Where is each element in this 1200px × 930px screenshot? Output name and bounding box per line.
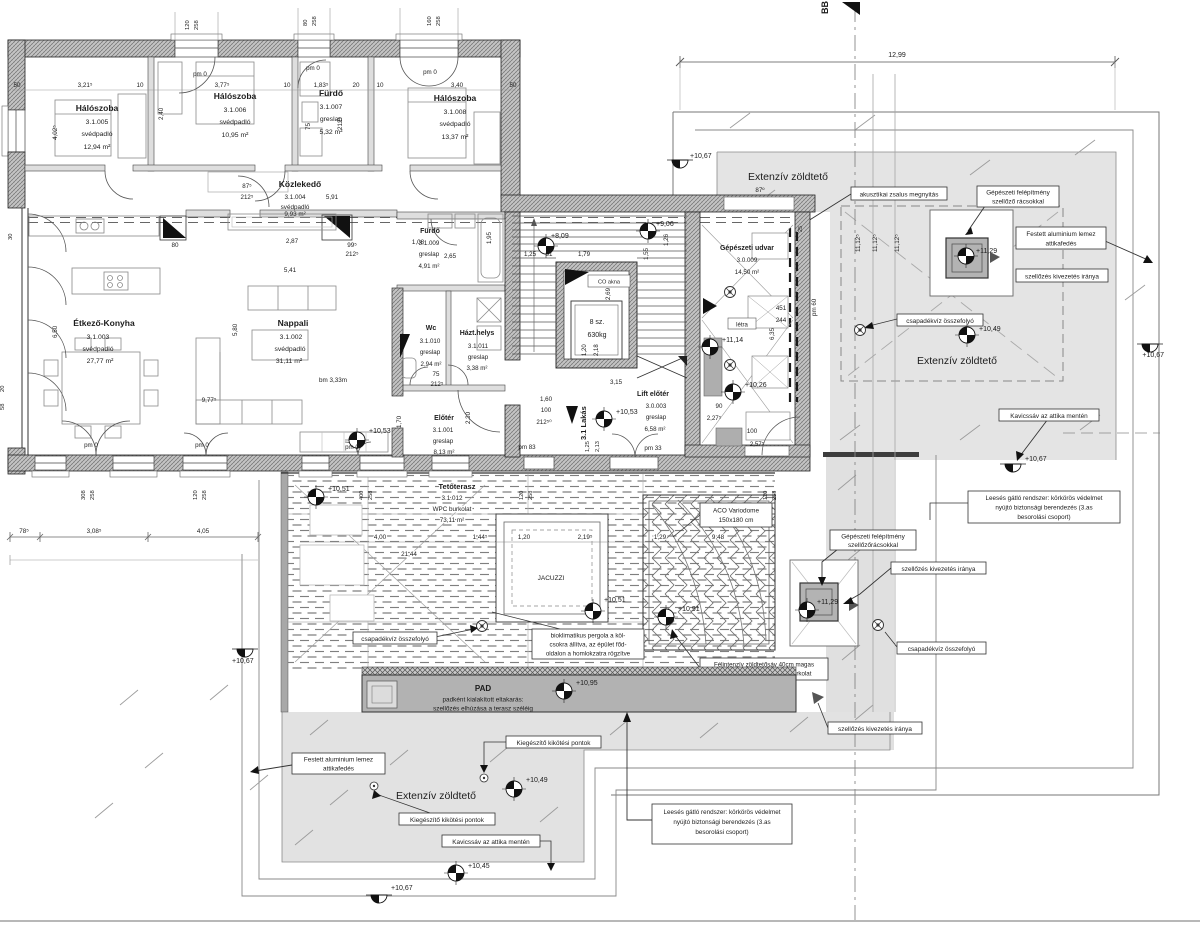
- svg-text:+9,06: +9,06: [656, 221, 674, 228]
- svg-text:27,77 m²: 27,77 m²: [87, 358, 115, 365]
- marker +10,51 terrace left: [304, 485, 328, 509]
- svg-text:258: 258: [528, 491, 534, 500]
- svg-text:258: 258: [90, 490, 96, 500]
- vent enclosure white box right roof: [930, 210, 1013, 296]
- svg-text:CO akna: CO akna: [598, 280, 621, 286]
- svg-text:90: 90: [716, 403, 723, 410]
- svg-text:Fürdő: Fürdő: [319, 88, 343, 98]
- svg-text:szellőzés kivezetés iránya: szellőzés kivezetés iránya: [1025, 274, 1099, 281]
- svg-text:svédpadló: svédpadló: [275, 346, 306, 353]
- svg-text:+10,91: +10,91: [678, 606, 700, 613]
- svg-text:400: 400: [359, 491, 365, 500]
- marker +10,95 PAD: [552, 679, 576, 703]
- wc toilet: [402, 358, 416, 378]
- udvar equipment boxes: [746, 233, 790, 440]
- letra label: [728, 318, 756, 329]
- marker +10,67 terrace left: [232, 649, 258, 657]
- callout kavicssav bottom: [442, 835, 555, 871]
- svg-text:25: 25: [798, 226, 804, 232]
- green roof band bottom upper: [282, 712, 890, 750]
- section grid line 3: [894, 74, 896, 712]
- svg-text:Extenzív zöldtető: Extenzív zöldtető: [748, 171, 828, 183]
- terrace ghost furniture: [300, 505, 374, 621]
- udvar top opening: [724, 197, 794, 210]
- bottom window 2: [110, 456, 157, 477]
- corridor top wall segments: [25, 165, 501, 171]
- marker +10,51 jacuzzi: [581, 599, 605, 623]
- svg-text:3.1.008: 3.1.008: [444, 109, 467, 116]
- CO akna label: [588, 275, 630, 287]
- svg-text:212⁵: 212⁵: [431, 381, 444, 388]
- svg-text:+10,51: +10,51: [604, 597, 626, 604]
- terrace drain: [477, 621, 488, 632]
- svg-text:258: 258: [772, 491, 778, 500]
- svg-text:20: 20: [0, 386, 6, 392]
- dashed attic line right bottom: [1063, 432, 1160, 434]
- udvar bottom opening: [745, 446, 789, 456]
- elevator shaft walls: [556, 262, 637, 368]
- svg-text:5,80: 5,80: [232, 323, 239, 336]
- svg-text:Extenzív zöldtető: Extenzív zöldtető: [396, 790, 476, 802]
- pm labels doors: [84, 65, 437, 451]
- dashed maintenance rect right roof: [841, 206, 1063, 381]
- bottom double door arcs 2: [184, 433, 228, 455]
- svg-text:Hálószoba: Hálószoba: [434, 93, 477, 103]
- svg-text:svédpadló: svédpadló: [281, 204, 310, 211]
- marker +11,29 bottom: [795, 598, 819, 622]
- svg-text:3.1.004: 3.1.004: [284, 194, 306, 201]
- door arcs top rooms: [179, 57, 458, 93]
- vent square bottom: [800, 583, 838, 621]
- window witness lines top: [175, 8, 458, 40]
- glass wall door arcs left: [28, 214, 66, 411]
- svg-text:2,18: 2,18: [594, 344, 600, 356]
- svg-text:10: 10: [376, 82, 384, 89]
- svg-text:212⁵: 212⁵: [345, 251, 359, 258]
- svg-text:pm 0: pm 0: [195, 442, 209, 449]
- outer wall bottom main: [8, 455, 810, 471]
- door arc wc: [410, 367, 428, 385]
- stair treads top flight: [512, 216, 687, 258]
- svg-text:212⁵⁰: 212⁵⁰: [536, 419, 552, 426]
- outer wall top segment 1: [8, 40, 175, 57]
- callout kavicssav right: [999, 409, 1099, 461]
- eloter closet: [300, 432, 388, 452]
- svg-text:3,15: 3,15: [610, 379, 623, 386]
- green roof fill right main: [830, 212, 1116, 460]
- svg-text:630kg: 630kg: [587, 332, 606, 339]
- svg-text:+10,67: +10,67: [391, 885, 413, 892]
- svg-text:1,20: 1,20: [582, 344, 588, 356]
- bottom opening entry: [524, 457, 554, 469]
- svg-text:12,94 m²: 12,94 m²: [84, 144, 112, 151]
- svg-text:svédpadló: svédpadló: [83, 346, 114, 353]
- terrace diagonal cross 2: [515, 525, 595, 610]
- dim row 78 308 405: [10, 536, 258, 538]
- nappali east wall upper: [392, 288, 403, 396]
- svg-text:Leesés gátló rendszer: körkörö: Leesés gátló rendszer: körkörös védelmet: [664, 809, 781, 816]
- svg-text:+11,29: +11,29: [976, 248, 997, 255]
- bottom window 4: [299, 456, 332, 477]
- svg-text:csapadékvíz összefolyó: csapadékvíz összefolyó: [908, 646, 976, 653]
- PAD hatch strip: [362, 667, 796, 675]
- svg-text:2,27⁵: 2,27⁵: [707, 415, 722, 422]
- callout leesesgatlo bottom: [623, 712, 792, 844]
- svg-text:87⁵: 87⁵: [242, 183, 252, 190]
- outer wall top segment 2: [218, 40, 298, 57]
- svg-text:svédpadló: svédpadló: [220, 119, 251, 126]
- svg-text:+10,49: +10,49: [526, 777, 548, 784]
- svg-text:JACUZZI: JACUZZI: [538, 575, 565, 582]
- svg-text:21,44: 21,44: [401, 551, 417, 558]
- diagonal tick marks right roof: [730, 113, 1145, 720]
- svg-text:svédpadló: svédpadló: [82, 131, 113, 138]
- udvar louvre dashes: [790, 228, 797, 402]
- svg-text:+10,51: +10,51: [328, 486, 350, 493]
- door arcs corridor: [105, 171, 438, 207]
- svg-text:120: 120: [193, 490, 199, 500]
- svg-text:+10,45: +10,45: [468, 863, 490, 870]
- door arc living big: [458, 390, 500, 432]
- svg-text:11,12⁵: 11,12⁵: [872, 234, 879, 252]
- svg-text:Festett aluminium lemez: Festett aluminium lemez: [1026, 231, 1095, 238]
- svg-text:11,12⁵: 11,12⁵: [855, 234, 862, 252]
- bottom window 1: [32, 456, 69, 477]
- terrace grid lines: [288, 474, 643, 672]
- svg-text:attikafedés: attikafedés: [1046, 241, 1077, 248]
- svg-text:258: 258: [312, 16, 318, 26]
- stair treads left flight: [512, 266, 556, 354]
- kitchen counter: [29, 216, 159, 236]
- svg-text:Lift előtér: Lift előtér: [637, 391, 669, 398]
- terrace top edge: [281, 472, 775, 474]
- svg-text:pm 0: pm 0: [423, 69, 437, 76]
- svg-text:attikafedés: attikafedés: [323, 766, 354, 773]
- PAD planter box: [367, 681, 397, 708]
- svg-text:150x180 cm: 150x180 cm: [719, 517, 754, 524]
- elevator cab: [571, 301, 622, 359]
- marker +11,29 vent: [954, 244, 978, 268]
- furniture bath007: [300, 62, 330, 156]
- svg-text:+10,67: +10,67: [1025, 456, 1047, 463]
- svg-text:3.1.006: 3.1.006: [224, 107, 247, 114]
- svg-text:Gépészeti felépítmény: Gépészeti felépítmény: [841, 534, 905, 541]
- callout ACO Variodome: [673, 503, 772, 537]
- svg-text:1,25: 1,25: [585, 441, 591, 452]
- green roof edge lines right: [717, 152, 1116, 460]
- bottom window 5: [357, 456, 407, 477]
- svg-text:greslap: greslap: [646, 414, 667, 421]
- bottom double door arcs 1: [62, 421, 130, 455]
- svg-text:greslap: greslap: [419, 251, 440, 258]
- kitchen vent black wedge: [163, 218, 186, 238]
- marker +10,67 roof bottom: [1000, 464, 1026, 472]
- svg-text:50: 50: [509, 82, 517, 89]
- svg-text:szellőzés kivezetés iránya: szellőzés kivezetés iránya: [902, 566, 976, 573]
- svg-text:2,13: 2,13: [595, 441, 601, 452]
- svg-text:PAD: PAD: [475, 684, 492, 693]
- outer wall right upper: [501, 40, 520, 197]
- dashed diagonal right roof 2: [845, 212, 1058, 378]
- svg-text:1,79: 1,79: [578, 251, 591, 258]
- svg-text:oldalon a homlokzatra rögzítve: oldalon a homlokzatra rögzítve: [546, 651, 631, 658]
- outer wall top segment 4: [458, 40, 520, 57]
- callout csapadekviz mid: [864, 314, 983, 329]
- svg-text:11,12⁵: 11,12⁵: [894, 234, 901, 252]
- furdo009 bottom wall: [397, 285, 505, 291]
- svg-text:9,93 m²: 9,93 m²: [284, 211, 305, 218]
- svg-text:2,69: 2,69: [605, 287, 612, 300]
- marker +10,49 roof: [955, 323, 979, 347]
- outer wall left mid: [8, 152, 25, 208]
- callout gepeszeti felepitmeny bottom: [818, 530, 916, 586]
- vent white box bottom: [790, 560, 858, 646]
- svg-text:1,29: 1,29: [654, 534, 667, 541]
- marker +11,14: [698, 335, 722, 359]
- arrow triangle right of vent: [990, 252, 1000, 263]
- callout gepeszeti felepitmeny top: [977, 186, 1059, 207]
- svg-text:10: 10: [136, 82, 144, 89]
- section line BB vertical: [854, 6, 856, 920]
- svg-text:99⁵: 99⁵: [347, 242, 357, 249]
- svg-text:Kiegészítő kikötési pontok: Kiegészítő kikötési pontok: [517, 740, 592, 747]
- svg-text:20: 20: [352, 82, 360, 89]
- svg-text:78⁵: 78⁵: [19, 528, 29, 535]
- svg-text:2,65: 2,65: [444, 253, 457, 260]
- svg-text:létra: létra: [736, 323, 748, 329]
- callout leesesgatlo top: [930, 491, 1120, 523]
- svg-text:+10,53: +10,53: [369, 428, 391, 435]
- glass wall left lower: [22, 208, 28, 455]
- wc black wedge: [400, 334, 410, 358]
- callout festett aluminium: [1016, 227, 1106, 249]
- door arc furdo009: [431, 219, 457, 245]
- svg-text:pm 0: pm 0: [306, 65, 320, 72]
- svg-text:akusztikai zsalus megnyitás: akusztikai zsalus megnyitás: [860, 192, 939, 199]
- corridor dashed section lines: [28, 217, 812, 219]
- callout akusztikai zsalus: [797, 187, 947, 229]
- svg-text:+11,29: +11,29: [817, 599, 838, 606]
- callout felintenziv zoldtetosav: [670, 629, 828, 680]
- callout festett aluminium bottom: [250, 753, 385, 774]
- callout csapadekviz terrace: [353, 625, 478, 644]
- svg-text:2,19⁵: 2,19⁵: [578, 534, 593, 541]
- green roof edge bottom area: [282, 712, 890, 862]
- svg-text:80: 80: [303, 20, 309, 26]
- bottom window 3: [180, 456, 230, 477]
- svg-text:+8,09: +8,09: [551, 233, 569, 240]
- partition wall 006-007: [292, 57, 298, 171]
- udvar gray pad: [704, 338, 722, 396]
- svg-text:451: 451: [776, 305, 787, 312]
- attic frame outer bottom: [242, 455, 936, 896]
- bottom window 6: [429, 456, 472, 477]
- wc bottom wall: [397, 385, 505, 391]
- svg-text:1,83⁵: 1,83⁵: [314, 82, 329, 89]
- tv bench: [228, 214, 336, 230]
- herringbone contour curves: [652, 498, 766, 646]
- svg-text:greslap: greslap: [433, 438, 454, 445]
- furniture bed room008: [408, 88, 500, 164]
- svg-text:4,00: 4,00: [374, 534, 387, 541]
- furniture bed room005: [55, 94, 146, 158]
- svg-text:75: 75: [433, 371, 440, 378]
- terrace left border band: [281, 472, 288, 712]
- svg-text:szellőzőrácsokkal: szellőzőrácsokkal: [848, 542, 898, 549]
- nappali sofa2: [248, 286, 336, 360]
- svg-text:csapadékvíz összefolyó: csapadékvíz összefolyó: [361, 636, 429, 643]
- svg-text:bm 3,33m: bm 3,33m: [319, 377, 347, 384]
- svg-text:1,20: 1,20: [518, 534, 531, 541]
- marker +10,91 herringbone: [654, 605, 678, 629]
- svg-text:+10,95: +10,95: [576, 680, 598, 687]
- svg-text:+10,49: +10,49: [979, 326, 1001, 333]
- svg-text:244: 244: [776, 317, 787, 324]
- svg-text:4,91 m²: 4,91 m²: [419, 263, 440, 270]
- svg-text:+10,67: +10,67: [690, 153, 712, 160]
- section grid line 2: [872, 74, 874, 712]
- attic frame inner continuous: [259, 130, 1133, 879]
- svg-text:Fürdő: Fürdő: [420, 228, 440, 235]
- svg-text:Leesés gátló rendszer: körkörö: Leesés gátló rendszer: körkörös védelmet: [986, 495, 1103, 502]
- dining table: [44, 338, 158, 438]
- svg-text:50: 50: [13, 82, 21, 89]
- hazt machines: [477, 298, 501, 350]
- bottom door arcs 3: [345, 442, 371, 455]
- svg-text:BB: BB: [820, 1, 830, 14]
- svg-text:+10,53: +10,53: [616, 409, 638, 416]
- svg-text:258: 258: [194, 20, 200, 30]
- stair west wall upper: [505, 212, 520, 360]
- svg-text:Festett aluminium lemez: Festett aluminium lemez: [304, 757, 373, 764]
- svg-text:8,13 m²: 8,13 m²: [434, 449, 455, 456]
- svg-text:Gépészeti felépítmény: Gépészeti felépítmény: [986, 190, 1050, 197]
- callout szellozes kivezetes top: [1016, 269, 1108, 282]
- svg-text:3.0.003: 3.0.003: [646, 403, 667, 410]
- svg-text:szellőzés kivezetés iránya: szellőzés kivezetés iránya: [838, 726, 912, 733]
- svg-text:+11,14: +11,14: [722, 337, 743, 344]
- herringbone drain field: [643, 495, 775, 650]
- svg-text:2,94 m²: 2,94 m²: [421, 361, 442, 368]
- svg-text:szellőzés elhúzása a terasz sz: szellőzés elhúzása a terasz széléig: [433, 706, 533, 713]
- svg-text:Tetőterasz: Tetőterasz: [439, 482, 476, 491]
- svg-text:3.1.001: 3.1.001: [433, 427, 454, 434]
- svg-text:greslap: greslap: [420, 349, 441, 356]
- stair west wall lower: [505, 405, 520, 457]
- callout csapadekviz bottom right: [885, 632, 986, 654]
- green roof strip right lower: [826, 457, 894, 750]
- udvar interior diagonals: [702, 225, 793, 443]
- udvar black triangle: [703, 298, 717, 314]
- svg-text:3,77⁵: 3,77⁵: [215, 82, 230, 89]
- marker +10,53 lift: [592, 407, 616, 431]
- svg-text:13,37 m²: 13,37 m²: [442, 134, 470, 141]
- svg-text:2,87: 2,87: [286, 238, 299, 245]
- wall band stair top: [501, 195, 815, 212]
- svg-text:212⁵: 212⁵: [241, 194, 254, 201]
- udvar door arc: [762, 417, 800, 455]
- svg-text:120: 120: [185, 20, 191, 30]
- svg-text:1,44⁵: 1,44⁵: [473, 534, 488, 541]
- svg-text:258: 258: [368, 491, 374, 500]
- udvar wall right: [795, 212, 810, 455]
- nappali east wall lower: [392, 428, 403, 457]
- callout bioklimatikus pergola: [492, 612, 644, 659]
- svg-text:Előtér: Előtér: [434, 415, 454, 422]
- svg-text:3.1.002: 3.1.002: [280, 334, 303, 341]
- svg-text:3.1.007: 3.1.007: [320, 104, 343, 111]
- dimension 12,99: [680, 61, 1115, 63]
- svg-text:3,40: 3,40: [451, 82, 464, 89]
- svg-text:csapadékvíz összefolyó: csapadékvíz összefolyó: [906, 318, 974, 325]
- svg-text:Gépészeti udvar: Gépészeti udvar: [720, 245, 774, 252]
- svg-text:Extenzív zöldtető: Extenzív zöldtető: [917, 355, 997, 367]
- svg-text:Kavicssáv az attika mentén: Kavicssáv az attika mentén: [452, 839, 530, 846]
- svg-text:73,11 m²: 73,11 m²: [440, 517, 464, 524]
- marker +8,09 stairs: [534, 234, 558, 258]
- PAD band: [362, 675, 796, 712]
- svg-text:120: 120: [763, 491, 769, 500]
- partition wall 005-006: [148, 57, 154, 171]
- svg-text:2,57⁵: 2,57⁵: [750, 441, 765, 448]
- svg-text:pm 0: pm 0: [345, 444, 359, 451]
- svg-text:nyújtó biztonsági berendezés (: nyújtó biztonsági berendezés (3.as: [995, 505, 1092, 512]
- svg-text:Házt.helys: Házt.helys: [460, 330, 495, 337]
- stair treads right flight: [637, 266, 687, 354]
- jacuzzi inner dashed: [512, 530, 592, 606]
- svg-text:csokra állítva, az épület főd-: csokra állítva, az épület főd-: [549, 642, 626, 649]
- svg-text:pm 0: pm 0: [193, 71, 207, 78]
- drain circle right roof: [855, 325, 866, 336]
- vent leader arrow right roof: [968, 206, 985, 231]
- svg-text:9,77⁵: 9,77⁵: [202, 397, 217, 404]
- furniture bed room006: [158, 62, 254, 124]
- svg-text:58: 58: [0, 404, 6, 410]
- svg-text:258: 258: [202, 490, 208, 500]
- page footer rule: [0, 920, 1200, 922]
- shaft black wedge livingroom: [324, 216, 350, 238]
- window top 2: [294, 34, 334, 57]
- svg-text:+10,67: +10,67: [232, 658, 254, 665]
- jacuzzi mid: [504, 522, 600, 614]
- svg-text:Közlekedő: Közlekedő: [279, 179, 322, 189]
- svg-text:pm 33: pm 33: [644, 445, 662, 452]
- svg-text:1,60: 1,60: [540, 396, 553, 403]
- svg-text:12,99: 12,99: [888, 52, 906, 59]
- svg-text:pm 0: pm 0: [84, 442, 98, 449]
- svg-text:6,50: 6,50: [52, 325, 59, 338]
- svg-text:pm 83: pm 83: [518, 444, 536, 451]
- svg-text:padként kialakított eltakarás:: padként kialakított eltakarás:: [443, 697, 524, 704]
- stair break brace: [637, 356, 687, 378]
- svg-text:1,08: 1,08: [412, 239, 425, 246]
- arrow triangle vent bottom: [849, 600, 859, 611]
- svg-text:3.0.009: 3.0.009: [737, 257, 758, 264]
- outer wall left upper: [8, 40, 25, 110]
- udvar gray pad small: [716, 428, 742, 446]
- jacuzzi outer: [496, 514, 608, 622]
- outer wall left bottom stub: [8, 448, 25, 474]
- kitchen island: [72, 268, 160, 294]
- attic frame outer right: [611, 112, 1159, 795]
- svg-text:1,26: 1,26: [663, 233, 670, 246]
- arrow triangle strip lower: [812, 692, 824, 704]
- svg-text:+10,26: +10,26: [745, 382, 767, 389]
- svg-text:4,05: 4,05: [197, 528, 210, 535]
- svg-text:6,58 m²: 6,58 m²: [645, 426, 666, 433]
- bottom door stair: [610, 457, 658, 469]
- corridor closet: [208, 172, 288, 192]
